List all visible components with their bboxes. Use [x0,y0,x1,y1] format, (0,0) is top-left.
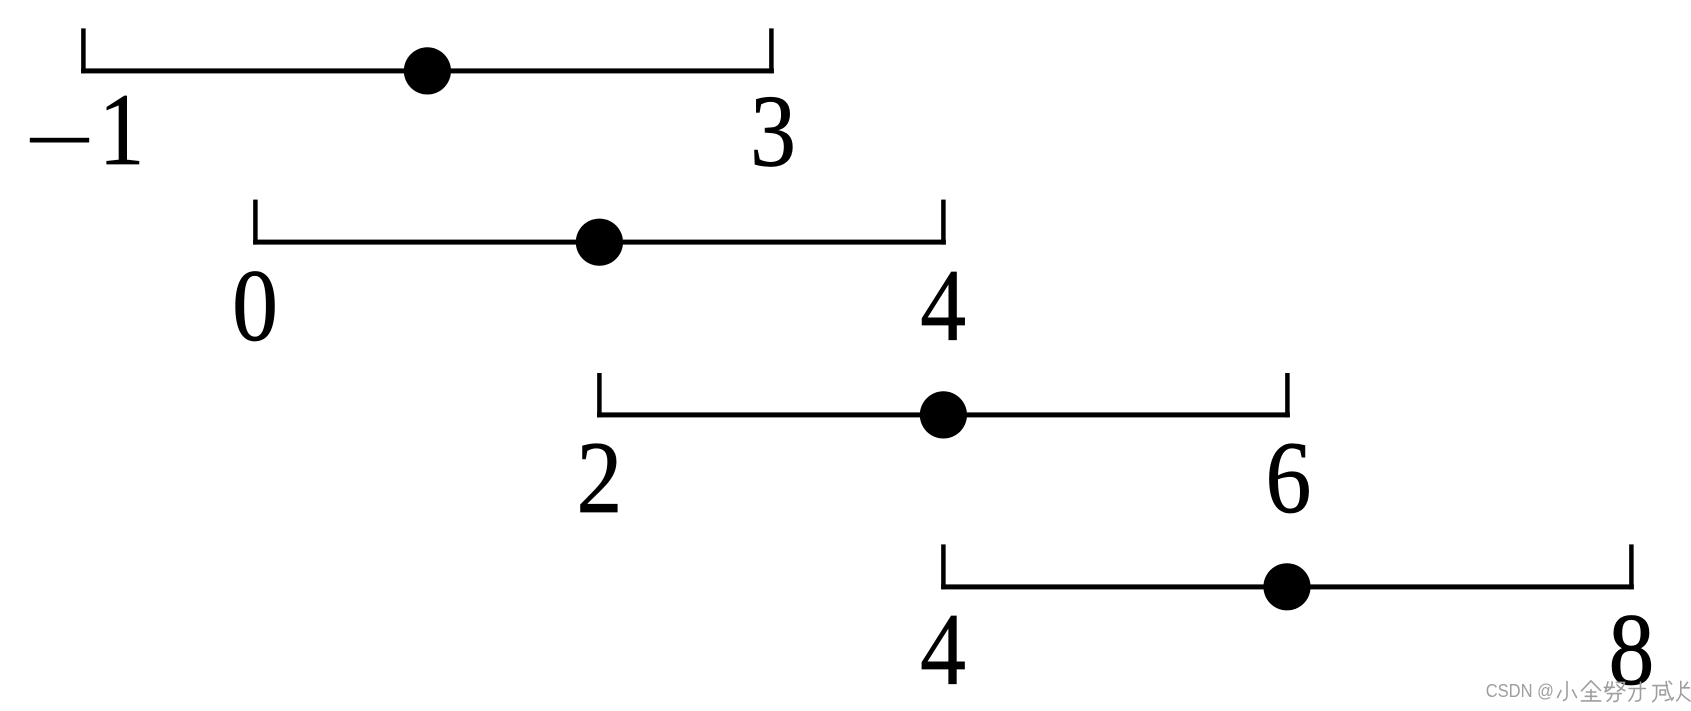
svg-text:4: 4 [920,593,966,707]
interval 2 line segment [0,4] [253,240,946,245]
watermark hanzi jin [1581,681,1600,701]
interval 2 right endpoint tick at 4 [941,200,946,245]
interval 1 label -1 : minus bar [30,138,89,143]
interval 3 line segment [2,6] [597,412,1290,417]
interval 1 line segment [-1,3] [81,68,774,73]
svg-text:8: 8 [1608,593,1654,707]
svg-text:4: 4 [920,249,966,363]
svg-text:2: 2 [576,421,622,535]
interval 1 right endpoint tick at 3 [769,28,774,73]
interval 4 line segment [4,8] [941,584,1634,589]
svg-text:CSDN @: CSDN @ [1486,680,1554,701]
interval 1 left endpoint tick at -1 [81,28,86,73]
svg-text:1: 1 [99,73,145,187]
svg-text:0: 0 [232,249,278,363]
watermark hanzi li [1629,682,1646,701]
watermark hanzi nu [1604,682,1625,702]
svg-text:6: 6 [1265,421,1311,535]
interval 4 right endpoint tick at 8 [1629,544,1634,589]
interval 3 left endpoint tick at 2 [597,373,602,417]
interval 3 midpoint dot at 4 [920,391,967,438]
watermark hanzi zhang [1677,681,1690,701]
interval 4 midpoint dot at 6 [1263,563,1310,610]
watermark hanzi cheng [1653,681,1674,701]
interval 2 left endpoint tick at 0 [253,200,258,245]
interval 3 right endpoint tick at 6 [1285,373,1290,417]
interval 1 midpoint dot at 1 [404,47,451,94]
watermark hanzi xiao [1558,682,1577,701]
svg-text:3: 3 [750,75,796,189]
interval 4 left endpoint tick at 4 [941,544,946,589]
interval 2 midpoint dot at 2 [576,219,623,266]
